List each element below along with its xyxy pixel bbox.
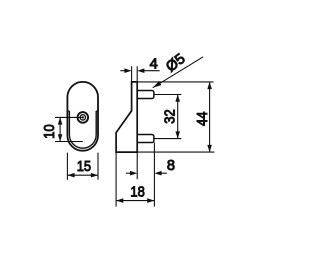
dim 8 right arrow: [154, 171, 161, 176]
stud end extension down for dims 8 and 18: [153, 143, 155, 207]
svg-text:15: 15: [77, 159, 91, 175]
dim 15 arrow right: [91, 173, 98, 178]
dim 10 leader from hole center: [55, 116, 83, 118]
svg-text:10: 10: [42, 124, 58, 138]
dim 15 left extension line: [66, 153, 68, 180]
dim 32 arrow up: [175, 95, 180, 102]
dim 32 line: [177, 95, 179, 139]
svg-text:8: 8: [167, 158, 175, 174]
dim 4 right extension above flange: [136, 66, 138, 82]
side view profile: [116, 82, 137, 152]
dim 4 left arrow: [124, 68, 131, 73]
dim 8 right tail: [160, 172, 167, 174]
svg-text:Ø5: Ø5: [163, 51, 188, 76]
hole inner circle: [80, 115, 85, 120]
svg-text:18: 18: [130, 184, 144, 200]
inner U right top hook: [96, 110, 98, 112]
svg-text:4: 4: [150, 56, 158, 72]
inner U left top hook: [67, 110, 69, 112]
left extension down for dim 18: [115, 152, 117, 207]
dim 32 arrow down: [175, 131, 180, 138]
dim 4 right tail: [143, 70, 160, 72]
dim 10 vertical line: [59, 117, 61, 141]
dia 5 leader arrow: [153, 81, 162, 88]
dim 4 right arrow: [137, 68, 144, 73]
hole outer circle: [78, 112, 89, 123]
svg-text:32: 32: [163, 109, 179, 123]
dim 15 line: [67, 174, 98, 176]
dim 15 arrow left: [67, 173, 74, 178]
dim 44 arrow up: [207, 82, 212, 89]
dim 4 left tail: [120, 70, 126, 72]
dim 4 left extension above flange: [131, 66, 133, 82]
dim 10 arrow up: [58, 117, 63, 124]
dim 10 lower reference line: [55, 141, 83, 143]
dim 8 left tail: [126, 172, 131, 174]
front view inner U channel: [69, 111, 96, 148]
bottom edge extension to 44 dim: [137, 151, 214, 153]
dim 15 right extension line: [97, 153, 99, 180]
svg-text:44: 44: [195, 112, 211, 126]
dim 18 arrow left: [116, 198, 123, 203]
dim 18 line: [116, 200, 154, 202]
dim 8 left arrow: [130, 171, 137, 176]
side view upper stud: [137, 91, 154, 99]
dim 44 arrow down: [207, 145, 212, 152]
dia 5 leader line: [153, 57, 204, 88]
front view outer stadium: [67, 82, 98, 151]
dim 10 arrow down: [58, 134, 63, 141]
dim 44 line: [209, 82, 211, 152]
lower stud center extension: [154, 138, 181, 140]
hole center dot: [82, 116, 84, 118]
upper stud center extension: [154, 94, 181, 96]
dim 18 arrow right: [147, 198, 154, 203]
right face extension down for dim 8: [136, 152, 138, 179]
top edge extension to 44 dim: [137, 81, 213, 83]
side view lower stud: [137, 135, 154, 143]
